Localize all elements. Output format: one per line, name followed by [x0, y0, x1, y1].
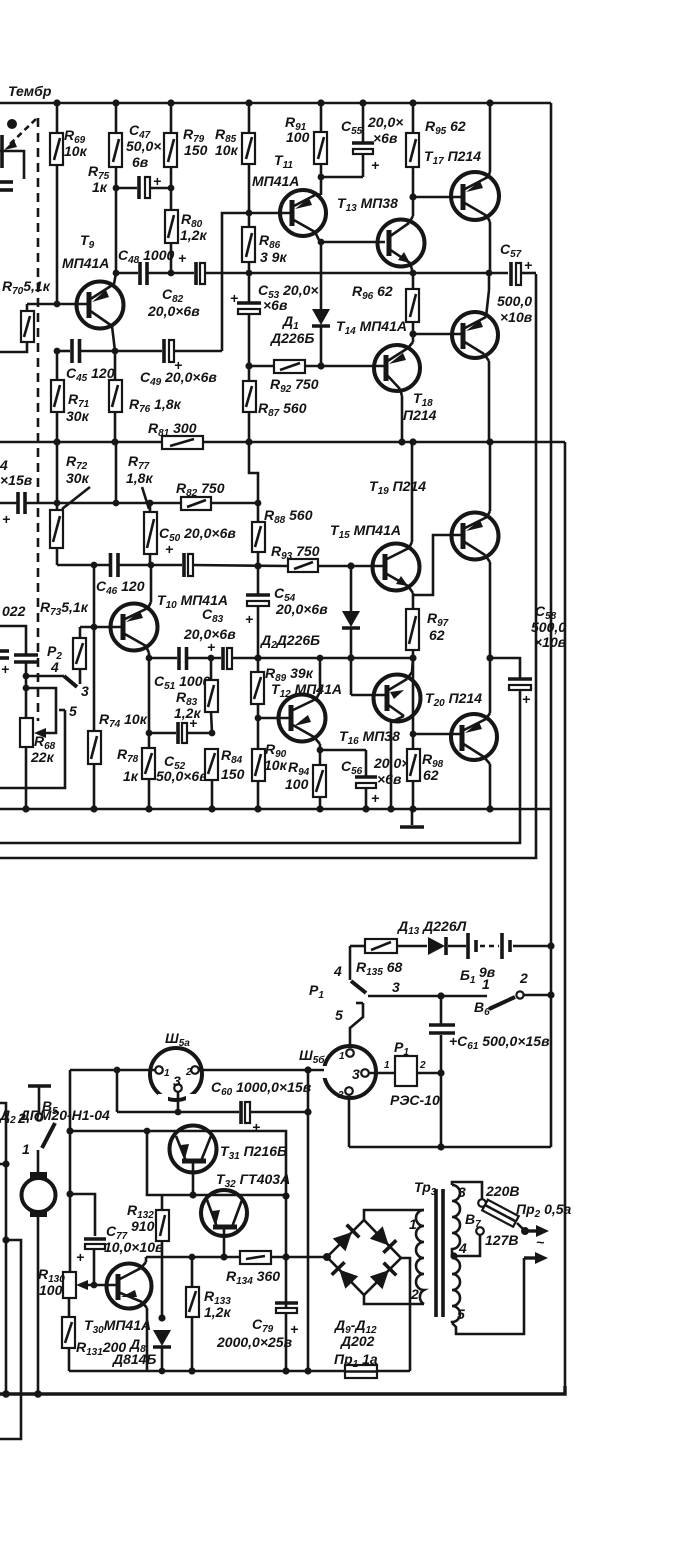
- diode Д1 Д226Б: [312, 242, 330, 366]
- svg-text:1,2к: 1,2к: [180, 227, 207, 243]
- wire tap 3 to 220В contact: [452, 1182, 482, 1199]
- svg-text:1к: 1к: [123, 768, 139, 784]
- svg-text:20,0×6в: 20,0×6в: [183, 626, 236, 642]
- node dot x70 y1194: [66, 1190, 73, 1197]
- svg-text:×6в: ×6в: [263, 297, 288, 313]
- svg-text:910: 910: [131, 1218, 155, 1234]
- wire base line to T20: [413, 733, 461, 736]
- transistor T32 ГТ403А rotated: [201, 1190, 247, 1257]
- svg-text:150: 150: [221, 766, 245, 782]
- bridge diode top-right: [370, 1226, 397, 1253]
- wire T16 base line: [351, 694, 387, 697]
- node dot emitter/C45 x57: [54, 348, 61, 355]
- svg-text:5: 5: [69, 703, 77, 719]
- capacitor C54 electrolytic: [246, 566, 270, 658]
- wire top supply rail y=103: [0, 102, 551, 105]
- svg-text:1,2к: 1,2к: [174, 705, 201, 721]
- svg-text:РЭС-10: РЭС-10: [390, 1092, 440, 1108]
- tone pot remnant: junction dot: [7, 119, 17, 129]
- resistor R77: [144, 503, 157, 565]
- svg-text:+: +: [290, 1321, 298, 1337]
- tone pot remnant: track bar at page edge: [0, 135, 4, 168]
- wire contact line y=996: [368, 995, 487, 998]
- node dot x93 y565: [91, 562, 98, 569]
- capacitor C82 electrolytic: [196, 262, 205, 285]
- node dots mid rail: [53, 438, 60, 445]
- node dot x258 y658: [254, 654, 261, 661]
- bridge rectifier Д9-Д12 diamond: [327, 1220, 401, 1295]
- capacitor C50 electrolytic: [184, 553, 193, 577]
- svg-text:×6в: ×6в: [377, 771, 402, 787]
- wire C52 line y=733: [149, 732, 212, 735]
- svg-text:30к: 30к: [66, 408, 90, 424]
- capacitor C51: [179, 647, 187, 670]
- svg-text:3 9к: 3 9к: [260, 249, 287, 265]
- resistor R83: [205, 658, 218, 733]
- contact 127В: [456, 1227, 484, 1256]
- svg-text:+: +: [1, 661, 9, 677]
- svg-text:1: 1: [482, 976, 490, 992]
- transistor T31 П216Б rotated: [170, 1126, 217, 1196]
- resistor R132: [156, 1195, 169, 1318]
- node dot x151 y565: [148, 562, 155, 569]
- svg-text:П214: П214: [403, 407, 437, 423]
- capacitor С61: [429, 996, 455, 1147]
- wire tap 5 to mains arrow 2: [452, 1252, 548, 1334]
- svg-text:+: +: [76, 1249, 84, 1265]
- capacitor 0,022 plates: [14, 655, 38, 662]
- svg-text:6в: 6в: [132, 154, 149, 170]
- svg-text:4: 4: [0, 457, 8, 473]
- dashed channel separator x=38: [37, 118, 40, 721]
- node dot x413 y734: [410, 731, 417, 738]
- svg-text:3: 3: [352, 1066, 360, 1082]
- connector Ш5а pin 3: [174, 1084, 182, 1112]
- node dot x351 y658: [347, 654, 354, 661]
- capacitor C58 electrolytic: [508, 679, 532, 690]
- transistor T20 П214: [451, 658, 497, 809]
- relay РЭС-10 box: [395, 1056, 441, 1086]
- node dot C47 left: [113, 185, 120, 192]
- capacitor C53 electrolytic: [237, 273, 261, 366]
- tone pot remnant: dashed wiper arrow: [4, 119, 36, 150]
- transformer Тр3 core: [436, 1189, 443, 1317]
- resistor R71: [51, 351, 64, 442]
- resistor R98: [407, 734, 420, 809]
- contact 220В: [478, 1199, 486, 1207]
- wire emitter line y=351 with C45/C49: [57, 350, 222, 353]
- wire bridge bottom to transformer: [364, 1295, 424, 1304]
- svg-text:~: ~: [536, 1234, 544, 1250]
- wire Ш5а pin2 line y=1070: [199, 1069, 324, 1072]
- node dot x441 y996: [437, 992, 444, 999]
- node dot x6 y1164: [2, 1160, 9, 1167]
- capacitor C57 electrolytic: [489, 262, 536, 286]
- svg-text:МП41А: МП41А: [62, 255, 109, 271]
- svg-text:+: +: [230, 290, 238, 306]
- node dot x38 y1394: [34, 1390, 42, 1398]
- svg-text:022: 022: [2, 603, 26, 619]
- transistor T10 МП41А: [111, 565, 158, 748]
- transistor T30 МП41А: [107, 1257, 152, 1371]
- svg-text:+: +: [371, 157, 379, 173]
- resistor R90: [252, 718, 265, 809]
- node dot y273 x489: [486, 270, 493, 277]
- svg-text:3: 3: [81, 683, 89, 699]
- svg-text:3: 3: [458, 1184, 466, 1200]
- resistor R135 horizontal: [365, 939, 397, 953]
- resistor R134 horizontal: [240, 1251, 271, 1264]
- wire C77 branch: [70, 1194, 95, 1236]
- svg-text:1,8к: 1,8к: [126, 470, 153, 486]
- motor Д2: [22, 1150, 56, 1394]
- transistor T12 МП41А: [279, 658, 326, 765]
- svg-text:22к: 22к: [30, 749, 55, 765]
- wire T19 base jog: [413, 535, 461, 595]
- svg-text:2: 2: [410, 1286, 419, 1302]
- node dot x26 y676: [23, 673, 30, 680]
- svg-text:20,0×6в: 20,0×6в: [147, 303, 200, 319]
- svg-text:1: 1: [22, 1141, 30, 1157]
- wire R95 bottom to T17 base: [413, 196, 461, 199]
- wire column x308: [307, 1070, 310, 1372]
- node: top rail junction dots: [53, 99, 60, 106]
- wire mid rail y=442: [0, 441, 565, 444]
- resistor R89: [251, 658, 264, 718]
- connector Ш5б pin 3: [361, 1069, 395, 1077]
- capacitor C55 electrolytic: [321, 103, 374, 177]
- svg-text:+: +: [371, 790, 379, 806]
- svg-text:50,0×: 50,0×: [126, 138, 161, 154]
- wire relay bottom line y=1147: [349, 1146, 551, 1149]
- svg-text:20,0×: 20,0×: [367, 114, 403, 130]
- node dot x441 y1147: [437, 1143, 444, 1150]
- wire right supply vertical x=551: [550, 103, 553, 1147]
- svg-text:2: 2: [419, 1060, 426, 1071]
- svg-text:1,2к: 1,2к: [204, 1304, 231, 1320]
- resistor R97: [406, 609, 419, 658]
- resistor R93 horizontal: [288, 559, 318, 572]
- svg-text:5: 5: [335, 1007, 343, 1023]
- node dot y273 x413: [410, 270, 417, 277]
- svg-text:4: 4: [458, 1240, 467, 1256]
- svg-text:10к: 10к: [215, 142, 239, 158]
- svg-text:МП41А: МП41А: [252, 173, 299, 189]
- wire PSU left column x70: [69, 1070, 70, 1371]
- wire C49 right riser x=222 to T11 base: [222, 213, 292, 351]
- node dot x308 y1112: [304, 1108, 311, 1115]
- wire bottom border of PSU y=1394: [0, 1386, 565, 1394]
- capacitor C60 electrolytic: [241, 1101, 250, 1124]
- wire collector line y=1257: [146, 1256, 240, 1259]
- potentiometer R130: [63, 1272, 76, 1298]
- wire P2 wiper loop to R68: [26, 688, 56, 738]
- switch P1 arm: [350, 946, 366, 993]
- resistor R88: [252, 503, 265, 566]
- svg-text:10к: 10к: [264, 757, 288, 773]
- diode Д13: [428, 937, 446, 955]
- transistor T13 МП38: [378, 197, 425, 273]
- wire driver line y=658 with C51 C83: [149, 657, 413, 660]
- wire feedback line y=503: [0, 502, 258, 505]
- wire T18 base line y=334: [413, 333, 461, 336]
- resistor R78: [142, 748, 155, 809]
- svg-text:2: 2: [519, 970, 528, 986]
- node dots PSU rail: [188, 1367, 195, 1374]
- svg-text:500,0: 500,0: [531, 619, 566, 635]
- svg-text:1: 1: [339, 1051, 345, 1062]
- connector Ш5б pin 1: [346, 1049, 354, 1057]
- resistor R72: [50, 442, 63, 565]
- svg-text:+: +: [522, 691, 530, 707]
- svg-text:4: 4: [50, 659, 59, 675]
- node dot x178 y1112: [175, 1109, 182, 1116]
- resistor R76: [109, 351, 122, 442]
- resistor R79: [164, 103, 177, 188]
- resistor R86: [242, 213, 255, 273]
- ground symbol: [400, 809, 424, 827]
- wire base bus y=1195: [162, 1194, 286, 1197]
- capacitor C46: [111, 553, 119, 577]
- wire T30 base with wiper arrow: [76, 1280, 118, 1290]
- node dot x441 y1073: [437, 1069, 444, 1076]
- svg-text:500,0: 500,0: [497, 293, 532, 309]
- node dot x57 y503: [54, 500, 61, 507]
- resistor R133: [186, 1257, 199, 1371]
- bridge diode bottom-left: [332, 1262, 359, 1289]
- resistor R94: [313, 765, 326, 809]
- svg-text:Тембр: Тембр: [8, 83, 52, 99]
- wire P2 contact 5: [0, 710, 65, 788]
- connector Ш5б pin 2: [345, 1087, 353, 1147]
- fuse Пр1: [345, 1365, 377, 1378]
- diode Д8 Д814Б zener: [153, 1330, 171, 1371]
- capacitor C49 electrolytic: [164, 339, 174, 363]
- svg-text:62: 62: [423, 767, 439, 783]
- node dot x224 y1257: [220, 1253, 227, 1260]
- node dot base/R69 column: [54, 301, 61, 308]
- potentiometer R68: [20, 718, 33, 809]
- node dot winding tap 4: [450, 1252, 457, 1259]
- resistor R74: [88, 731, 101, 764]
- svg-text:Д202: Д202: [340, 1333, 375, 1349]
- node dot x413 y658: [409, 654, 416, 661]
- node dot x321 y242: [318, 239, 325, 246]
- svg-text:+: +: [2, 511, 10, 527]
- svg-text:×15в: ×15в: [0, 472, 33, 488]
- svg-text:2: 2: [185, 1067, 192, 1078]
- connector Ш5а pin 1: [155, 1066, 163, 1074]
- wire bridge right output: [401, 1258, 410, 1371]
- transistor T18 П214: [452, 273, 498, 442]
- node dot R85/R86/T11 base: [246, 210, 253, 217]
- node dot x490 y658: [486, 654, 493, 661]
- wire P1 contact 5 to Ш5б pin1: [350, 1003, 363, 1047]
- node dot x6 y1394: [2, 1390, 10, 1398]
- svg-text:+: +: [178, 250, 186, 266]
- wire C60 line y=1112: [117, 1111, 308, 1114]
- svg-text:3: 3: [173, 1073, 181, 1089]
- node dot x211 y658: [208, 655, 215, 662]
- transistor T11 МП41А: [280, 190, 326, 242]
- wire amp bottom rail y=809: [0, 808, 551, 811]
- node dot C47 right: [168, 185, 175, 192]
- node dot x286 y1257: [282, 1253, 289, 1260]
- svg-text:10к: 10к: [64, 143, 88, 159]
- node dot x351 y566: [347, 562, 354, 569]
- wire drop x117: [116, 1070, 119, 1112]
- svg-text:+: +: [524, 257, 532, 273]
- svg-text:100: 100: [39, 1282, 63, 1298]
- svg-text:62: 62: [429, 627, 445, 643]
- wire C46 drop / R74 column x94: [93, 565, 96, 809]
- svg-text:2000,0×25в: 2000,0×25в: [216, 1334, 293, 1350]
- wire pot to lower contact: [0, 151, 24, 179]
- node dot y273 x116: [113, 270, 120, 277]
- wire T11 emitter to T13 base y=242: [320, 241, 385, 244]
- resistor R131: [62, 1317, 75, 1348]
- node dot x117 y1070: [114, 1067, 121, 1074]
- bridge diode top-left: [333, 1225, 360, 1252]
- resistor R87: [243, 366, 256, 442]
- svg-text:×6в: ×6в: [373, 130, 398, 146]
- node dot x413 y334: [409, 330, 416, 337]
- wire T9 base line: [27, 303, 89, 306]
- capacitor C56 electrolytic: [355, 750, 377, 809]
- node dot x321 y366: [317, 362, 324, 369]
- node dot T11 collector/C55: [318, 174, 325, 181]
- resistor R75: [109, 103, 122, 273]
- capacitor C47 electrolytic: [116, 176, 171, 199]
- resistor R91: [314, 103, 327, 195]
- node dot x147 y1131: [144, 1128, 151, 1135]
- wire emitter line y=750 to C56: [320, 749, 366, 752]
- svg-text:50,0×6в: 50,0×6в: [156, 768, 208, 784]
- node dot x26 y688: [23, 685, 30, 692]
- node dot x116 y503: [113, 500, 120, 507]
- svg-text:×10в: ×10в: [534, 634, 567, 650]
- node dot emitter/C45 x115: [112, 348, 119, 355]
- wire P2 arm from x26: [26, 676, 77, 687]
- transformer secondary winding lower: [452, 1258, 460, 1323]
- node dot x258 y718: [255, 715, 262, 722]
- svg-text:4: 4: [333, 963, 342, 979]
- wire x116 mid rail to y503: [115, 442, 118, 503]
- wire coupling line y=273: [116, 272, 489, 275]
- node dot x258 y566: [254, 562, 261, 569]
- svg-text:×10в: ×10в: [500, 309, 533, 325]
- svg-text:220В: 220В: [485, 1183, 519, 1199]
- battery Б1 cells: [468, 933, 510, 959]
- svg-text:+: +: [252, 1119, 260, 1135]
- svg-text:1: 1: [384, 1060, 390, 1071]
- connector Ш5а ring: [150, 1048, 202, 1103]
- node dot y273 x249: [246, 270, 253, 277]
- svg-text:100: 100: [285, 776, 309, 792]
- resistor R70: [0, 304, 34, 352]
- capacitor C77 electrolytic: [84, 1239, 106, 1285]
- node dot x249 y366: [245, 362, 252, 369]
- resistor R92 horizontal: [274, 360, 305, 373]
- node dot x149 y733: [146, 730, 153, 737]
- wire R92 line y=366: [249, 365, 386, 368]
- svg-text:2: 2: [337, 1090, 344, 1101]
- resistor R82 horizontal: [181, 497, 211, 510]
- svg-text:3: 3: [392, 979, 400, 995]
- wire stub y=1164: [0, 1163, 6, 1166]
- node dot x192 y1257: [189, 1254, 196, 1261]
- bridge diode bottom-right: [370, 1263, 397, 1290]
- node dot x320 y750: [317, 747, 324, 754]
- wire R88 jog from mid rail: [249, 442, 258, 503]
- transistor T9 МП41А: [77, 273, 124, 351]
- resistor R81 inline on mid rail: [162, 436, 203, 449]
- wire C58 branch: [490, 658, 520, 678]
- switch B5: [28, 1086, 55, 1148]
- svg-text:5: 5: [457, 1306, 465, 1322]
- node dot bridge left corner: [323, 1253, 331, 1261]
- wire T10 base line: [80, 626, 123, 629]
- transformer primary winding left: [416, 1210, 424, 1304]
- svg-text:127В: 127В: [485, 1232, 518, 1248]
- node dot x94 y1285: [91, 1282, 98, 1289]
- resistor R96: [406, 273, 419, 334]
- node dot x149 y658: [146, 655, 153, 662]
- wire T12 base line: [258, 717, 291, 720]
- node dots amp bottom rail: [22, 805, 29, 812]
- transistor T14 МП41А: [374, 334, 420, 442]
- node dot x413 y197: [409, 193, 416, 200]
- capacitor C83 electrolytic: [207, 639, 232, 670]
- switch B6 arm and contact: [489, 991, 551, 1009]
- wire left edge column x6: [0, 1103, 6, 1394]
- capacitor plates at page edge: [0, 180, 13, 184]
- node dot x551 y946: [547, 942, 554, 949]
- wire speaker line y=858: [0, 274, 536, 858]
- node dot x212 y733: [209, 730, 216, 737]
- transistor T16 МП38: [374, 658, 421, 809]
- switch P2 wiring: cap column at x26: [0, 626, 26, 718]
- node dot x162 y1318: [158, 1314, 165, 1321]
- svg-text:1: 1: [164, 1068, 170, 1079]
- capacitor C45: [72, 339, 80, 363]
- node dot T31 base y1195: [189, 1191, 196, 1198]
- wire fuse to mains arrow 1: [517, 1223, 549, 1237]
- svg-text:150: 150: [184, 142, 208, 158]
- node dot x70 y1131: [66, 1127, 73, 1134]
- wire base line y=565 with C46 C50 R93: [57, 565, 385, 566]
- svg-text:1к: 1к: [92, 179, 108, 195]
- fuse Пр2 rotated: [482, 1200, 519, 1227]
- svg-text:+: +: [153, 173, 161, 189]
- page edge cap marks: [0, 651, 9, 677]
- battery Б1 row: wire y=946: [350, 945, 551, 948]
- wire PSU inner rail y=1371: [69, 1370, 410, 1373]
- transistor T15 МП41А: [373, 442, 420, 609]
- diode Д2 Д226Б: [342, 566, 360, 695]
- wire T20 base line y=734: [412, 658, 415, 734]
- resistor R85: [242, 103, 255, 213]
- capacitor C48: [140, 262, 147, 285]
- svg-text:100: 100: [286, 129, 310, 145]
- wire speaker line y=843: [0, 690, 520, 843]
- wire Ш5а pin1 line y=1070: [70, 1069, 155, 1072]
- capacitor C52 electrolytic: [178, 715, 197, 744]
- resistor R95: [406, 103, 419, 197]
- wire bridge top to transformer: [364, 1210, 424, 1220]
- node dot x150 y503: [147, 500, 154, 507]
- node dot x94 y627: [91, 624, 98, 631]
